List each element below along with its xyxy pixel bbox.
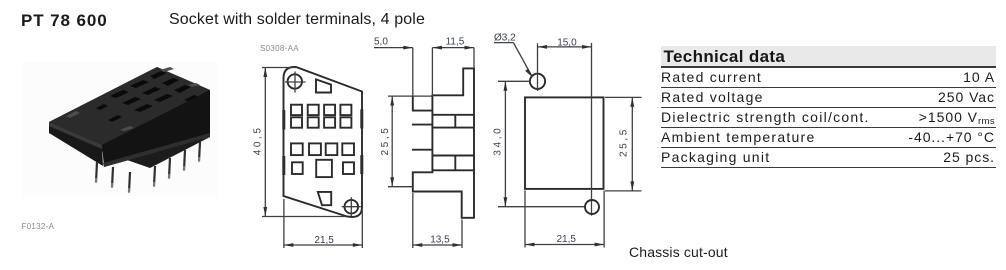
mounting hole top-left crosshair bbox=[288, 74, 302, 88]
top hole circle bbox=[530, 74, 545, 89]
pin tips light bbox=[96, 157, 199, 193]
cut-out rectangle bbox=[525, 97, 604, 188]
svg-text:21,5: 21,5 bbox=[314, 235, 334, 246]
dim 21,5 extension left bbox=[283, 199, 285, 248]
photo label F0132-A bbox=[22, 222, 55, 231]
top hole horizontal centerline bbox=[498, 80, 530, 82]
title: product number bbox=[21, 12, 108, 29]
caption: Chassis cut-out bbox=[629, 244, 728, 260]
front view outline bbox=[284, 67, 363, 217]
dim 25,5 right line bbox=[631, 97, 633, 190]
dim 25,5 extension bottom bbox=[388, 186, 413, 188]
side view outline bbox=[413, 68, 474, 217]
dim 13,5 extension right bbox=[461, 220, 463, 249]
dim 25,5 extension top bbox=[388, 95, 432, 97]
svg-text:25,5: 25,5 bbox=[619, 127, 630, 157]
hole row 1 bbox=[291, 105, 351, 115]
title: description bbox=[169, 11, 425, 28]
flange tab box bbox=[413, 96, 433, 111]
socket top face hole texture bbox=[96, 71, 199, 122]
socket top face glints bbox=[66, 67, 200, 131]
technical data table bbox=[661, 46, 996, 168]
chamber box 1 bbox=[432, 115, 474, 128]
photo background bbox=[22, 62, 218, 196]
top hole vertical centerline bbox=[537, 43, 539, 91]
table header band bbox=[661, 46, 996, 68]
edge notch left upper bbox=[282, 110, 285, 130]
svg-text:25,5: 25,5 bbox=[380, 126, 391, 156]
dim 25,5 line bbox=[391, 96, 393, 187]
hole row 4 small-big-small bbox=[292, 160, 354, 177]
socket top face bbox=[49, 67, 210, 145]
dim 15,0 extension right bbox=[591, 43, 593, 216]
mounting hole bottom-right crosshair bbox=[345, 200, 359, 214]
pin lower bbox=[412, 149, 433, 151]
edge notch right upper bbox=[360, 109, 363, 128]
dim 15,0 line bbox=[538, 46, 592, 48]
socket body silhouette bbox=[49, 67, 210, 168]
socket flange edge highlight bbox=[103, 133, 210, 167]
socket front face bbox=[49, 122, 103, 166]
svg-text:11,5: 11,5 bbox=[446, 36, 465, 47]
dim 11,5 line bbox=[432, 47, 474, 49]
row: dielectric strength bbox=[661, 108, 996, 128]
dim 40,5 line bbox=[264, 68, 266, 217]
label leader arrow line bbox=[513, 43, 531, 76]
dim 13,5 line bbox=[413, 244, 462, 246]
dim 25,5 right extension top bbox=[605, 96, 642, 98]
dim 21,5 extension right bbox=[603, 191, 605, 248]
svg-text:5,0: 5,0 bbox=[374, 36, 388, 47]
dim 11,5 extension right bbox=[473, 48, 475, 68]
svg-text:13,5: 13,5 bbox=[430, 235, 450, 246]
dim 5,0 extension lines bbox=[412, 48, 414, 96]
svg-text:34,0: 34,0 bbox=[493, 126, 504, 156]
svg-text:40,5: 40,5 bbox=[252, 125, 263, 155]
dim 21,5 line bbox=[525, 244, 604, 246]
svg-text:15,0: 15,0 bbox=[557, 37, 577, 48]
svg-text:Ø3,2: Ø3,2 bbox=[494, 32, 516, 43]
dim 21,5 extension right bbox=[361, 210, 363, 248]
hole row 2 bbox=[291, 117, 351, 127]
row: rated current bbox=[661, 68, 996, 88]
dim 34,0 extension bottom bbox=[498, 206, 585, 208]
dim 21,5 line bbox=[284, 244, 362, 246]
pin group left bbox=[96, 162, 130, 192]
edge notch left lower bbox=[282, 156, 285, 175]
bottom hole circle bbox=[585, 200, 599, 214]
label leader underline bbox=[494, 42, 513, 44]
bottom window trapezoid bbox=[318, 192, 331, 205]
drawing label S0308-AA bbox=[260, 44, 299, 53]
hole row 3 bbox=[291, 143, 354, 155]
row: ambient temperature bbox=[661, 128, 996, 148]
dim 25,5 right extension bottom bbox=[605, 190, 642, 192]
pin upper bbox=[412, 124, 433, 126]
dim 13,5 extension left bbox=[412, 193, 414, 248]
pin group right bbox=[154, 142, 200, 186]
dim 34,0 line bbox=[504, 81, 506, 206]
svg-text:21,5: 21,5 bbox=[557, 234, 577, 245]
row: packaging unit bbox=[661, 148, 996, 168]
row: rated voltage bbox=[661, 88, 996, 108]
dim 5,0 leader line bbox=[374, 47, 413, 49]
top window trapezoid bbox=[316, 79, 331, 92]
chamber box 2 bbox=[432, 156, 474, 171]
dim 40,5 extension bottom bbox=[262, 216, 346, 218]
socket front rim light bbox=[49, 122, 102, 149]
edge notch right lower bbox=[360, 155, 363, 174]
dim 21,5 extension left bbox=[524, 191, 526, 248]
socket right face bbox=[102, 90, 210, 167]
dim 40,5 extension top bbox=[262, 67, 297, 69]
